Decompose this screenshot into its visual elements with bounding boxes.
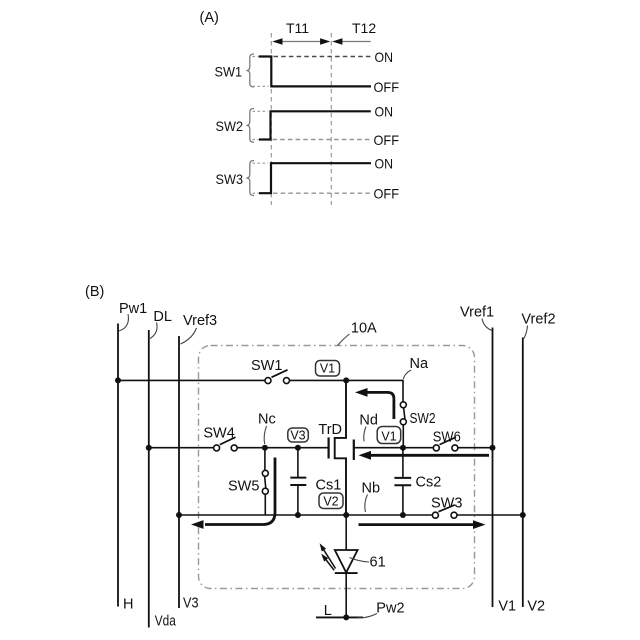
svg-text:Vda: Vda: [155, 614, 177, 630]
svg-text:Pw2: Pw2: [376, 601, 404, 617]
svg-text:OFF: OFF: [374, 186, 400, 202]
svg-text:Nb: Nb: [362, 481, 381, 497]
svg-text:SW3: SW3: [431, 496, 462, 512]
svg-text:10A: 10A: [351, 321, 377, 337]
svg-text:V1: V1: [498, 599, 516, 615]
svg-text:V2: V2: [323, 494, 338, 508]
svg-text:(B): (B): [85, 284, 104, 300]
svg-text:61: 61: [370, 555, 386, 571]
svg-text:SW3: SW3: [216, 171, 244, 187]
svg-text:Cs2: Cs2: [416, 475, 442, 491]
svg-text:SW4: SW4: [203, 426, 234, 442]
svg-text:Nd: Nd: [359, 413, 378, 429]
svg-text:SW5: SW5: [228, 479, 259, 495]
svg-text:ON: ON: [375, 49, 394, 65]
svg-text:(A): (A): [200, 10, 219, 26]
svg-text:SW1: SW1: [251, 358, 282, 374]
svg-text:SW2: SW2: [216, 118, 244, 134]
svg-text:Vref2: Vref2: [521, 312, 555, 328]
svg-text:Vref1: Vref1: [460, 305, 494, 321]
svg-text:T11: T11: [286, 20, 309, 36]
svg-text:OFF: OFF: [374, 79, 400, 95]
svg-text:SW1: SW1: [215, 64, 243, 80]
svg-text:SW6: SW6: [433, 430, 461, 446]
svg-text:Nc: Nc: [258, 412, 276, 428]
svg-text:ON: ON: [375, 104, 394, 120]
svg-text:ON: ON: [375, 156, 394, 172]
svg-text:SW2: SW2: [410, 411, 436, 427]
svg-text:Vref3: Vref3: [183, 313, 217, 329]
svg-text:Na: Na: [410, 356, 429, 372]
svg-text:T12: T12: [352, 20, 376, 36]
svg-text:V1: V1: [381, 429, 396, 443]
svg-text:V1: V1: [320, 362, 335, 376]
svg-text:Pw1: Pw1: [119, 301, 147, 317]
svg-text:Cs1: Cs1: [316, 478, 342, 494]
svg-text:V2: V2: [527, 599, 545, 615]
svg-text:V3: V3: [183, 596, 199, 612]
svg-text:OFF: OFF: [374, 132, 400, 148]
svg-text:V3: V3: [290, 428, 305, 442]
svg-text:L: L: [324, 603, 332, 619]
svg-text:H: H: [123, 597, 133, 613]
svg-text:TrD: TrD: [318, 422, 342, 438]
